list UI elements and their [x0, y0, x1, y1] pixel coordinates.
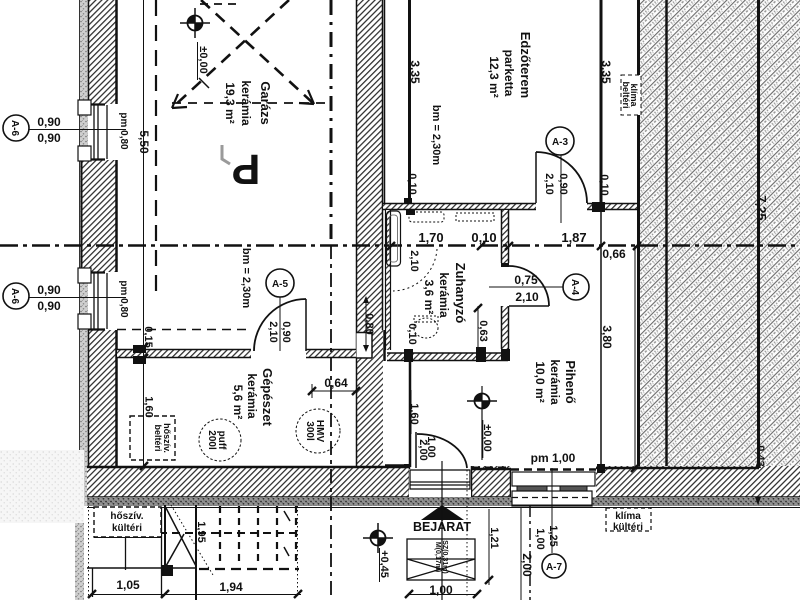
svg-text:1,70: 1,70	[418, 230, 443, 245]
svg-text:3,35: 3,35	[599, 60, 613, 84]
svg-text:0,10: 0,10	[598, 174, 610, 195]
svg-text:5,50: 5,50	[137, 130, 151, 154]
svg-text:3,35: 3,35	[408, 60, 422, 84]
svg-text:2,00: 2,00	[520, 553, 534, 577]
svg-text:1,94: 1,94	[219, 580, 243, 594]
svg-text:0,75: 0,75	[514, 273, 538, 287]
svg-text:1,05: 1,05	[116, 578, 140, 592]
svg-text:0,63: 0,63	[477, 320, 489, 341]
svg-text:parketta: parketta	[502, 50, 516, 97]
svg-text:1,25: 1,25	[547, 525, 559, 546]
svg-text:bm = 2,30m: bm = 2,30m	[240, 248, 252, 308]
svg-text:±0,00: ±0,00	[197, 46, 209, 73]
svg-text:pm 0,80: pm 0,80	[118, 112, 129, 150]
svg-text:2,10: 2,10	[267, 321, 279, 342]
svg-text:12,3 m²: 12,3 m²	[487, 56, 501, 97]
svg-text:Zuhanyzó: Zuhanyzó	[453, 263, 468, 324]
svg-text:0,90: 0,90	[37, 299, 61, 313]
svg-text:1,00: 1,00	[429, 583, 453, 597]
svg-text:kültéri: kültéri	[112, 523, 142, 534]
svg-text:0,43: 0,43	[754, 445, 766, 466]
svg-text:0,90: 0,90	[37, 131, 61, 145]
svg-text:1,00: 1,00	[534, 528, 546, 549]
svg-text:1,60: 1,60	[143, 396, 155, 417]
svg-text:0,80: 0,80	[363, 313, 375, 334]
svg-text:0,10: 0,10	[406, 173, 418, 194]
svg-text:pm 0,80: pm 0,80	[118, 280, 129, 318]
svg-text:A-4: A-4	[569, 279, 580, 296]
svg-text:2,10: 2,10	[408, 250, 420, 271]
svg-text:0,90: 0,90	[557, 173, 569, 194]
svg-text:0,64: 0,64	[324, 376, 348, 390]
svg-text:kerámia: kerámia	[245, 373, 259, 419]
svg-text:A-5: A-5	[272, 279, 289, 290]
svg-text:300l: 300l	[304, 421, 315, 441]
svg-text:pm 1,00: pm 1,00	[531, 451, 576, 465]
svg-text:klíma: klíma	[615, 511, 641, 522]
svg-text:A-6: A-6	[9, 120, 20, 137]
svg-text:10,0 m²: 10,0 m²	[533, 361, 547, 402]
svg-text:2,00: 2,00	[417, 439, 429, 460]
svg-text:A-6: A-6	[9, 288, 20, 305]
svg-text:Edzőterem: Edzőterem	[518, 32, 533, 98]
svg-text:0,90: 0,90	[280, 321, 292, 342]
svg-text:hőszív.: hőszív.	[110, 511, 143, 522]
svg-text:kerámia: kerámia	[548, 359, 562, 405]
svg-text:0,90: 0,90	[37, 283, 61, 297]
svg-text:0,15: 0,15	[142, 326, 154, 347]
svg-text:P: P	[232, 145, 261, 193]
svg-text:kerámia: kerámia	[239, 80, 253, 126]
svg-text:1,87: 1,87	[561, 230, 586, 245]
svg-text:Pihenő: Pihenő	[563, 360, 578, 403]
svg-text:7,25: 7,25	[754, 195, 769, 220]
svg-text:1,95: 1,95	[195, 521, 207, 542]
svg-text:A-7: A-7	[546, 562, 563, 573]
svg-text:kerámia: kerámia	[437, 272, 451, 318]
svg-text:3,80: 3,80	[600, 325, 614, 349]
svg-text:5,6 m²: 5,6 m²	[231, 385, 245, 420]
svg-text:kültéri: kültéri	[613, 522, 643, 533]
svg-text:Garázs: Garázs	[258, 81, 273, 124]
svg-text:0,66: 0,66	[602, 247, 626, 261]
svg-text:0,10: 0,10	[471, 230, 496, 245]
svg-text:Gépészet: Gépészet	[260, 368, 275, 426]
svg-text:beltéri: beltéri	[153, 424, 163, 451]
svg-text:0,10: 0,10	[406, 323, 418, 344]
svg-text:1,60: 1,60	[408, 403, 420, 424]
svg-text:2,10: 2,10	[515, 290, 539, 304]
svg-text:19,3 m²: 19,3 m²	[223, 82, 237, 123]
svg-text:M(0,17m): M(0,17m)	[434, 542, 441, 572]
svg-text:SZ(0,31m): SZ(0,31m)	[441, 540, 448, 573]
svg-text:bm = 2,30m: bm = 2,30m	[430, 105, 442, 165]
svg-text:3,6 m²: 3,6 m²	[422, 280, 436, 315]
svg-text:beltéri: beltéri	[621, 81, 631, 108]
svg-text:200l: 200l	[206, 430, 217, 450]
svg-text:2,10: 2,10	[543, 173, 555, 194]
svg-text:1,21: 1,21	[488, 527, 500, 548]
svg-text:BEJÁRAT: BEJÁRAT	[413, 519, 471, 534]
svg-text:0,90: 0,90	[37, 115, 61, 129]
svg-text:A-3: A-3	[552, 137, 569, 148]
